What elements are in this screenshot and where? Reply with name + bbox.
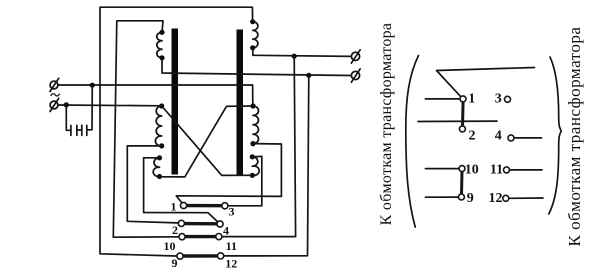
- svg-text:9: 9: [172, 256, 178, 270]
- wire: contact 3 to W6 top: [228, 156, 262, 205]
- node D2: [64, 102, 69, 107]
- contact 2: [178, 220, 184, 226]
- contact 12: [218, 253, 224, 259]
- wire left to contact 9: [425, 196, 458, 198]
- node D3: [306, 73, 311, 78]
- svg-text:1: 1: [171, 200, 177, 214]
- svg-text:3: 3: [495, 92, 502, 107]
- plug symbol (mains connector): [66, 105, 71, 130]
- winding W3 (middle, core 1): [155, 106, 161, 146]
- input terminal Ø lower left: [50, 101, 58, 109]
- node D1: [90, 83, 95, 88]
- cross wire A: W3 top to W6 bottom: [162, 106, 253, 175]
- wire: W3 bottom to contact 2: [127, 146, 181, 224]
- switch contact 10: [459, 166, 465, 172]
- wire: contact 12 to node D3: [224, 76, 309, 256]
- winding W4 (middle, core 2): [253, 106, 259, 144]
- wire row 2: [418, 120, 497, 122]
- svg-text:10: 10: [164, 239, 176, 253]
- wire right from contact 4: [514, 137, 541, 139]
- outer loop wire: contact 9 to W2 top: [100, 7, 253, 256]
- right brace: [549, 57, 562, 214]
- svg-text:3: 3: [229, 205, 235, 219]
- wire right from contact 11: [510, 169, 542, 171]
- svg-text:К обмоткам трансформатора: К обмоткам трансформатора: [565, 27, 584, 247]
- svg-text:10: 10: [465, 162, 479, 177]
- svg-text:11: 11: [490, 162, 503, 177]
- inner loop wire: contact 10 to W1 top: [113, 21, 182, 237]
- wire into contact 1 from top: [437, 68, 535, 97]
- switch contact 3: [505, 96, 511, 102]
- switch contact 11: [504, 167, 510, 173]
- contact 4: [217, 221, 223, 227]
- wire left to contact 1: [425, 98, 460, 100]
- wire: mains line 2 to winding W3 top: [58, 104, 162, 107]
- wire: contact 1 to W4 bottom: [176, 144, 281, 203]
- switch contact 4: [508, 135, 514, 141]
- cross wire B: W5 bottom to W4 top: [160, 106, 254, 177]
- input terminal Ø upper left: [50, 81, 58, 89]
- svg-text:2: 2: [172, 223, 178, 237]
- AC tilde mark: [51, 94, 59, 96]
- wire left to contact 10: [425, 168, 459, 170]
- right panel: switch block: [406, 56, 562, 228]
- jumper bar 2-4: [184, 222, 218, 226]
- switch contact 9: [458, 194, 464, 200]
- wire: mains line 1 to winding W4 top: [58, 85, 253, 106]
- contact 10: [179, 234, 185, 240]
- contact 9: [177, 253, 183, 259]
- switch contact 2: [459, 126, 465, 132]
- jumper bar 1-2: [461, 101, 465, 127]
- switch contact 1: [460, 96, 466, 102]
- svg-text:4: 4: [223, 224, 229, 238]
- winding W5 (lower, core 1): [153, 158, 159, 177]
- output terminal Ø lower right: [351, 71, 359, 79]
- jumper bar 9-12: [183, 254, 219, 258]
- contact 11: [216, 234, 222, 240]
- svg-text:2: 2: [469, 128, 476, 143]
- switch contact 12: [503, 195, 509, 201]
- svg-text:9: 9: [467, 191, 474, 206]
- wire: contact 11 to node D4: [222, 56, 296, 236]
- wire right from contact 12: [509, 197, 543, 199]
- jumper bar 10-11: [185, 235, 217, 238]
- wire: winding W1 bottom to right terminal Ø2: [162, 58, 351, 76]
- wire: winding W2 bottom to right terminal Ø1: [253, 48, 352, 57]
- transformer core 1: [172, 29, 179, 175]
- svg-text:1: 1: [468, 92, 475, 107]
- winding W6 (lower, core 2): [252, 157, 259, 176]
- contact 3: [222, 203, 228, 209]
- winding W2 (upper, core 2): [253, 22, 258, 48]
- wire: W5 top to contact 4: [144, 158, 220, 224]
- svg-text:12: 12: [225, 257, 237, 271]
- svg-text:12: 12: [489, 191, 503, 206]
- output terminal Ø upper right: [351, 52, 359, 60]
- svg-text:4: 4: [495, 129, 502, 144]
- transformer core 2: [237, 30, 244, 175]
- jumper bar 1-3: [186, 204, 222, 207]
- svg-text:11: 11: [226, 239, 237, 253]
- winding W1 (upper, core 1): [157, 32, 162, 58]
- contact 1: [181, 202, 187, 208]
- jumper bar 10-9: [460, 172, 464, 195]
- node D4: [292, 54, 297, 59]
- svg-text:К обмоткам трансформатора: К обмоткам трансформатора: [378, 23, 395, 226]
- left brace: [406, 56, 419, 228]
